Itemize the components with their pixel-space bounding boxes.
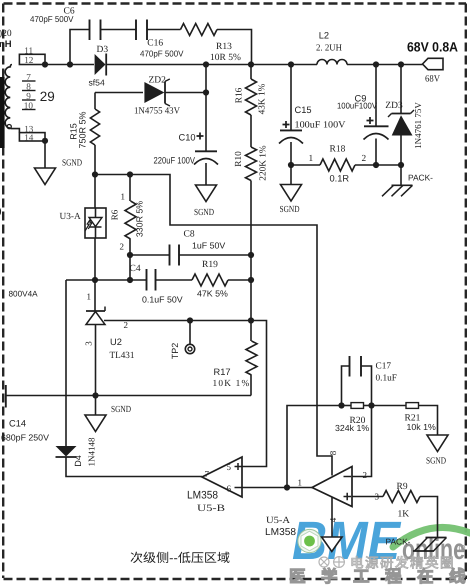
svg-text:47K 5%: 47K 5%: [197, 289, 228, 299]
zener ZD3 1N4761 75V: [385, 65, 423, 166]
svg-text:1: 1: [298, 478, 303, 488]
wire U5-B pin5 to reference: [242, 321, 267, 467]
optocoupler U3-A: [60, 175, 107, 281]
svg-text:C10: C10: [179, 133, 196, 143]
capacitor C15 100uF 100V: [279, 65, 346, 185]
capacitor C16 470pF 500V: [136, 20, 184, 59]
ground SGND (transformer): [35, 158, 83, 184]
svg-text:7: 7: [26, 72, 31, 82]
resistor R17 10K 1%: [213, 321, 258, 396]
diode D3 sf54: [89, 45, 109, 87]
svg-text:C17: C17: [376, 362, 392, 372]
test point TP2: [170, 321, 195, 360]
svg-text:C16: C16: [147, 38, 163, 48]
resistor R19 47K 5%: [192, 260, 251, 299]
capacitor C4 0.1uF 50V: [130, 264, 183, 304]
svg-text:680pF 250V: 680pF 250V: [1, 433, 49, 443]
op-amp U5-B LM358: [187, 457, 242, 514]
svg-text:68V: 68V: [425, 75, 440, 85]
svg-text:TP2: TP2: [170, 343, 180, 360]
svg-text:SGND: SGND: [111, 405, 131, 415]
svg-text:1N4755 43V: 1N4755 43V: [134, 107, 180, 117]
svg-text:LM358: LM358: [265, 527, 296, 538]
transformer winding 29: [5, 46, 55, 143]
capacitor C17 0.1uF: [342, 356, 397, 406]
svg-text:U5-B: U5-B: [197, 503, 226, 514]
resistor R13 10R 5%: [181, 24, 241, 64]
wire U5-A pin4 to ground: [331, 497, 333, 537]
resistor R9 1K: [352, 482, 438, 538]
svg-text:R19: R19: [202, 260, 218, 270]
chassis ground PACK- (top): [382, 173, 433, 197]
diode D4 1N4148: [56, 437, 97, 467]
capacitor C8 1uF 50V: [170, 230, 226, 266]
wire pin14 to ground: [42, 138, 48, 168]
section label: [130, 551, 230, 565]
svg-text:2: 2: [120, 242, 125, 252]
svg-text:R17: R17: [214, 367, 231, 377]
svg-text:800V4A: 800V4A: [9, 290, 39, 299]
svg-text:R10: R10: [234, 151, 244, 167]
svg-text:11: 11: [24, 46, 33, 56]
svg-text:1uF 50V: 1uF 50V: [192, 241, 225, 251]
svg-text:LM358: LM358: [187, 489, 218, 501]
svg-text:2: 2: [124, 320, 129, 330]
svg-text:10k 1%: 10k 1%: [407, 422, 437, 432]
svg-text:SGND: SGND: [194, 208, 214, 218]
svg-text:68V 0.8A: 68V 0.8A: [407, 39, 458, 54]
svg-text:29: 29: [40, 89, 55, 104]
svg-text:次级侧--低压区域: 次级侧--低压区域: [130, 551, 230, 565]
svg-text:9: 9: [26, 91, 31, 101]
ground SGND (R21): [426, 435, 448, 467]
svg-text:8: 8: [328, 450, 338, 455]
svg-text:R9: R9: [397, 482, 408, 492]
svg-text:0.1uF: 0.1uF: [376, 373, 397, 383]
svg-text:2: 2: [363, 470, 368, 480]
wire C8 row: [127, 252, 254, 258]
svg-text:0.1R: 0.1R: [330, 174, 350, 184]
resistor R21 10k 1%: [372, 403, 438, 435]
chassis ground PACK- (bottom): [386, 537, 447, 552]
wire U5-A pin2 feedback: [352, 406, 372, 477]
svg-text:2. 2UH: 2. 2UH: [316, 44, 342, 54]
svg-text:U5-A: U5-A: [266, 516, 290, 526]
svg-text:10K 1%: 10K 1%: [213, 379, 251, 389]
svg-text:R18: R18: [330, 144, 346, 154]
svg-text:43K 1%: 43K 1%: [258, 83, 268, 114]
wire output ground node: [373, 162, 404, 185]
svg-text:750R 5%: 750R 5%: [78, 111, 88, 148]
svg-text:PACK-: PACK-: [408, 173, 433, 183]
svg-text:10R 5%: 10R 5%: [210, 53, 241, 63]
wire U2 reference row: [104, 317, 254, 323]
wire U2 cathode/feedback node: [66, 280, 95, 446]
wire SGND row (C14/U2/R17): [5, 392, 251, 415]
svg-text:SGND: SGND: [426, 457, 446, 467]
svg-text:sf54: sf54: [89, 77, 105, 87]
svg-text:D3: D3: [97, 45, 109, 55]
wire U5-B output net: [66, 457, 202, 477]
svg-text:3: 3: [84, 341, 94, 346]
ground SGND (C15): [280, 185, 302, 216]
svg-text:4: 4: [328, 517, 338, 522]
capacitor C10 220uF 100V: [154, 65, 219, 186]
svg-text:470pF 500V: 470pF 500V: [30, 14, 74, 24]
svg-text:)20: )20: [0, 29, 12, 39]
svg-text:L2: L2: [319, 30, 329, 40]
svg-text:TL431: TL431: [110, 351, 135, 361]
svg-text:医学工程在线: 医学工程在线: [289, 567, 470, 585]
svg-text:1K: 1K: [398, 510, 410, 520]
svg-text:C8: C8: [184, 230, 195, 240]
svg-text:12: 12: [24, 55, 34, 65]
svg-text:C4: C4: [130, 264, 141, 274]
svg-text:nH: nH: [0, 39, 12, 50]
svg-text:U2: U2: [110, 337, 122, 347]
resistor R10 220K 1%: [234, 145, 269, 320]
wire main rectified rail: [42, 61, 423, 67]
ground SGND (U2): [85, 405, 131, 432]
svg-text:SGND: SGND: [62, 158, 82, 168]
zener ZD2 1N4755 43V: [95, 75, 209, 116]
cut-off label 20 nH (left edge): [0, 29, 38, 298]
svg-text:ZD3: ZD3: [385, 101, 403, 111]
svg-text:C15: C15: [295, 105, 312, 115]
capacitor C14 680pF 250V: [1, 385, 49, 443]
svg-text:5: 5: [227, 462, 232, 472]
wire R15/R6 node to op-amp V+: [95, 171, 332, 475]
svg-text:100uF 100V: 100uF 100V: [295, 121, 346, 131]
inductor L2 2.2UH: [316, 30, 347, 64]
svg-text:1N4761 75V: 1N4761 75V: [413, 102, 423, 149]
svg-text:1: 1: [309, 154, 314, 164]
resistor R6 330R 5%: [110, 175, 145, 256]
svg-text:330R 5%: 330R 5%: [135, 201, 145, 237]
resistor R16 43K 1%: [235, 65, 268, 148]
capacitor C9 100uF 100V: [337, 65, 389, 166]
svg-text:100uF100V: 100uF100V: [337, 101, 377, 111]
output connector 68V: [407, 39, 458, 84]
svg-text:324k 1%: 324k 1%: [335, 423, 369, 433]
svg-text:0: 0: [0, 205, 2, 219]
svg-text:1: 1: [121, 192, 126, 202]
svg-text:14: 14: [24, 132, 34, 142]
ground SGND (U5-A pin4): [322, 537, 342, 552]
wire C6/C16/R13 snubber branch: [70, 30, 252, 65]
capacitor C6 470pF 500V: [30, 6, 101, 40]
svg-text:220K 1%: 220K 1%: [259, 145, 269, 181]
svg-text:8: 8: [26, 82, 31, 92]
svg-text:1N4148: 1N4148: [87, 437, 97, 466]
ground SGND (C10): [194, 185, 217, 218]
svg-text:R6: R6: [110, 209, 120, 220]
svg-text:SGND: SGND: [280, 205, 300, 215]
svg-text:10: 10: [24, 101, 34, 111]
wire U5-B pin6 / U5-A output row: [242, 406, 342, 491]
svg-text:C14: C14: [9, 419, 26, 429]
wire C4/R19 row: [66, 255, 254, 283]
svg-text:7: 7: [205, 469, 210, 479]
svg-text:PACK-: PACK-: [386, 537, 411, 547]
svg-text:1: 1: [87, 292, 92, 302]
resistor R18 0.1R: [291, 144, 376, 183]
svg-text:6: 6: [227, 484, 232, 494]
svg-text:U3-A: U3-A: [60, 212, 81, 222]
svg-text:R16: R16: [235, 87, 245, 103]
svg-text:ZD2: ZD2: [149, 75, 167, 85]
resistor R15 750R 5%: [69, 93, 100, 178]
svg-text:D4: D4: [73, 455, 83, 467]
resistor R20 324k 1%: [335, 402, 375, 433]
svg-text:2: 2: [362, 154, 367, 164]
shunt regulator U2 TL431: [84, 292, 135, 396]
svg-text:0.1uF 50V: 0.1uF 50V: [142, 294, 183, 304]
svg-text:220uF 100V: 220uF 100V: [154, 155, 196, 165]
svg-text:470pF 500V: 470pF 500V: [140, 49, 184, 59]
svg-text:R13: R13: [216, 42, 232, 52]
op-amp U5-A LM358: [265, 450, 380, 538]
